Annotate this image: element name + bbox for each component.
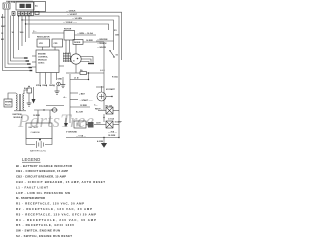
svg-text:RECP—: RECP— xyxy=(95,109,103,111)
legend entries xyxy=(16,164,105,238)
rail X70 xyxy=(69,74,71,123)
arrow down left xyxy=(32,87,36,104)
svg-text:IGNITION: IGNITION xyxy=(13,114,22,116)
wire mid low 1 xyxy=(46,105,64,107)
svg-text:4 GRN: 4 GRN xyxy=(97,140,104,143)
svg-text:WHT: WHT xyxy=(1,26,6,28)
svg-text:— BROWN: — BROWN xyxy=(97,39,108,41)
svg-text:GND▮: GND▮ xyxy=(49,84,55,87)
wire bus D xyxy=(26,24,109,30)
svg-text:4—: 4— xyxy=(64,96,67,99)
voltage regulator VR1 xyxy=(37,39,50,47)
left rail 1 xyxy=(3,14,32,71)
svg-text:⊙ 15A: ⊙ 15A xyxy=(108,118,114,121)
left rail 2 xyxy=(5,9,30,68)
svg-text:— BRN — 16 GA: — BRN — 16 GA xyxy=(77,32,93,35)
tap 99 xyxy=(70,99,93,102)
stator winding xyxy=(63,53,71,63)
wire mid horizontal xyxy=(32,32,64,34)
stator output wires xyxy=(71,57,94,64)
svg-text:L1 ⊕: L1 ⊕ xyxy=(74,77,79,80)
svg-text:18 GRN: 18 GRN xyxy=(108,135,116,137)
svg-text:BLK: BLK xyxy=(1,17,6,19)
rectifier CR1 xyxy=(52,39,63,47)
ground G3 xyxy=(27,93,32,106)
svg-text:SW - SWITCH, ENGINE RUN: SW - SWITCH, ENGINE RUN xyxy=(16,229,60,233)
svg-text:DIODE: DIODE xyxy=(74,42,81,44)
svg-text:IGN▮: IGN▮ xyxy=(43,84,48,87)
control box A1 xyxy=(34,2,46,15)
receptacle R1 xbox xyxy=(95,105,119,114)
svg-text:12 RED: 12 RED xyxy=(33,115,41,117)
pin 4 xyxy=(56,73,58,81)
svg-text:LEGEND: LEGEND xyxy=(22,157,40,162)
svg-text:CB1 - CIRCUIT BREAKER, 15 AMP: CB1 - CIRCUIT BREAKER, 15 AMP xyxy=(16,169,68,173)
engine control module box xyxy=(36,50,59,73)
left rail 4 xyxy=(11,16,28,62)
left stub 1 xyxy=(32,55,36,57)
svg-text:— WHITE: — WHITE xyxy=(97,47,107,49)
svg-text:R 15A: R 15A xyxy=(112,76,118,79)
switch S1 xyxy=(109,50,119,58)
left stub 2 xyxy=(32,61,36,63)
battery charger box xyxy=(26,123,52,139)
svg-text:— BLACK: — BLACK xyxy=(97,42,107,45)
svg-text:STR▮: STR▮ xyxy=(36,84,41,87)
svg-text:BI - BATTERY CHARGE INDICATOR: BI - BATTERY CHARGE INDICATOR xyxy=(16,164,72,168)
svg-text:— 12 BLK ——: — 12 BLK —— xyxy=(63,22,77,24)
svg-text:+ BAT: + BAT xyxy=(79,92,85,95)
svg-text:⚲ GROUND: ⚲ GROUND xyxy=(66,131,77,134)
svg-text:REGULATOR: REGULATOR xyxy=(37,36,50,39)
svg-text:B+ 12R: B+ 12R xyxy=(76,111,83,113)
svg-text:R5 - RECEPTACLE, GFCI 120V: R5 - RECEPTACLE, GFCI 120V xyxy=(16,223,74,227)
wire right mid xyxy=(96,86,104,88)
pin 1 xyxy=(39,73,41,85)
diode box D1 xyxy=(73,32,104,54)
connector panel J1 xyxy=(3,1,34,10)
ground G2 xyxy=(58,77,67,99)
ground G1 xyxy=(55,86,60,94)
ignition coil T1 xyxy=(14,94,26,111)
svg-text:LOP - LOW OIL PRESSURE SW: LOP - LOW OIL PRESSURE SW xyxy=(16,191,70,195)
wire vr to box xyxy=(42,47,44,50)
left rail 7 xyxy=(21,16,23,47)
svg-text:BATTERY: BATTERY xyxy=(29,126,39,129)
svg-text:R1 - RECEPTACLE, 120 VAC, 30 A: R1 - RECEPTACLE, 120 VAC, 30 AMP xyxy=(16,202,84,206)
left rail 5 xyxy=(14,16,26,59)
left rail 8 xyxy=(25,16,27,43)
wire bottom right xyxy=(66,135,120,138)
svg-text:L1 - FAULT LIGHT: L1 - FAULT LIGHT xyxy=(16,185,48,189)
svg-text:PLUG: PLUG xyxy=(5,105,11,107)
svg-text:— 6 GA —: — 6 GA — xyxy=(76,134,86,137)
svg-text:R4 - RECEPTACLE, 240 VAC, 30 A: R4 - RECEPTACLE, 240 VAC, 30 AMP xyxy=(16,218,96,222)
svg-text:— 14 BLK: — 14 BLK xyxy=(66,9,76,12)
wire bus C xyxy=(22,20,114,50)
svg-text:MODULE: MODULE xyxy=(38,60,47,62)
svg-text:→ START ——: → START —— xyxy=(79,99,93,102)
spark plug P1 xyxy=(4,93,16,107)
pin 2 xyxy=(45,73,47,85)
wire cr to box xyxy=(54,47,56,50)
svg-text:SPARK: SPARK xyxy=(5,101,12,104)
field box xyxy=(64,29,75,54)
svg-text:15 AMP: 15 AMP xyxy=(115,121,123,124)
svg-text:CB3 - CIRCUIT BREAKER, 15 AMP,: CB3 - CIRCUIT BREAKER, 15 AMP, AUTO RESE… xyxy=(16,180,105,184)
svg-text:CHARGE: CHARGE xyxy=(31,131,41,134)
starter motor M xyxy=(94,86,116,107)
svg-text:⚲—: ⚲— xyxy=(33,30,36,33)
left rail 9 xyxy=(28,16,30,39)
tap 107 xyxy=(70,105,90,113)
wire mid low 2 xyxy=(33,108,58,123)
wire L row xyxy=(70,73,89,80)
svg-text:R3 - RECEPTACLE, 120 VAC, GFCI: R3 - RECEPTACLE, 120 VAC, GFCI 20 AMP xyxy=(16,212,96,216)
left rail 3 xyxy=(8,9,29,64)
svg-text:S2 - SWITCH, ENGINE RUN RESET: S2 - SWITCH, ENGINE RUN RESET xyxy=(16,234,72,238)
svg-text:M - STARTER MOTOR: M - STARTER MOTOR xyxy=(16,196,45,200)
svg-text:— 20A —: — 20A — xyxy=(108,131,117,134)
receptacle R2 xbox xyxy=(96,117,122,134)
capacitor C1 xyxy=(24,86,32,94)
svg-text:BATTERY (12V): BATTERY (12V) xyxy=(30,149,46,152)
terminal ring xyxy=(57,82,61,86)
left rail 6 xyxy=(18,16,20,51)
legend heading xyxy=(22,157,41,162)
junction dots xyxy=(18,15,19,16)
rail x104 low xyxy=(103,114,105,122)
diode block xyxy=(64,118,98,128)
wire bus A xyxy=(30,12,122,60)
svg-text:12 RED: 12 RED xyxy=(80,105,88,107)
wire F row xyxy=(66,72,80,74)
svg-text:R2 - RECEPTACLE, 120 VAC, 20 A: R2 - RECEPTACLE, 120 VAC, 20 AMP xyxy=(16,207,92,211)
terminal strip TB1 xyxy=(12,12,34,16)
wire circle bottom xyxy=(75,64,77,73)
svg-text:M START: M START xyxy=(106,88,116,91)
left stub 3 xyxy=(32,66,36,68)
pin 3 xyxy=(50,73,52,85)
svg-text:C—: C— xyxy=(94,105,97,107)
svg-text:B+—: B+— xyxy=(24,88,29,90)
svg-text:CONTROL: CONTROL xyxy=(38,57,49,59)
terminal ticks bottom-left corner xyxy=(24,57,28,58)
tap 93 xyxy=(70,92,85,95)
right stub xyxy=(59,65,64,67)
alternator rotor circle xyxy=(71,54,81,64)
svg-text:16 RED: 16 RED xyxy=(86,40,94,42)
wire bus B xyxy=(19,16,120,138)
svg-text:120V: 120V xyxy=(96,122,101,124)
svg-text:CB2 - CIRCUIT BREAKER, 15 AMP: CB2 - CIRCUIT BREAKER, 15 AMP xyxy=(16,175,66,179)
svg-text:GND: GND xyxy=(58,79,63,81)
svg-text:MODULE: MODULE xyxy=(14,117,23,119)
ground G4 xyxy=(97,138,107,148)
battery BT1 xyxy=(26,139,52,149)
svg-text:— 14 GRN: — 14 GRN xyxy=(72,17,82,20)
svg-text:12VDC: 12VDC xyxy=(38,63,45,65)
svg-text:ENGINE: ENGINE xyxy=(38,54,46,56)
svg-text:— 14 WHT: — 14 WHT xyxy=(67,13,78,16)
